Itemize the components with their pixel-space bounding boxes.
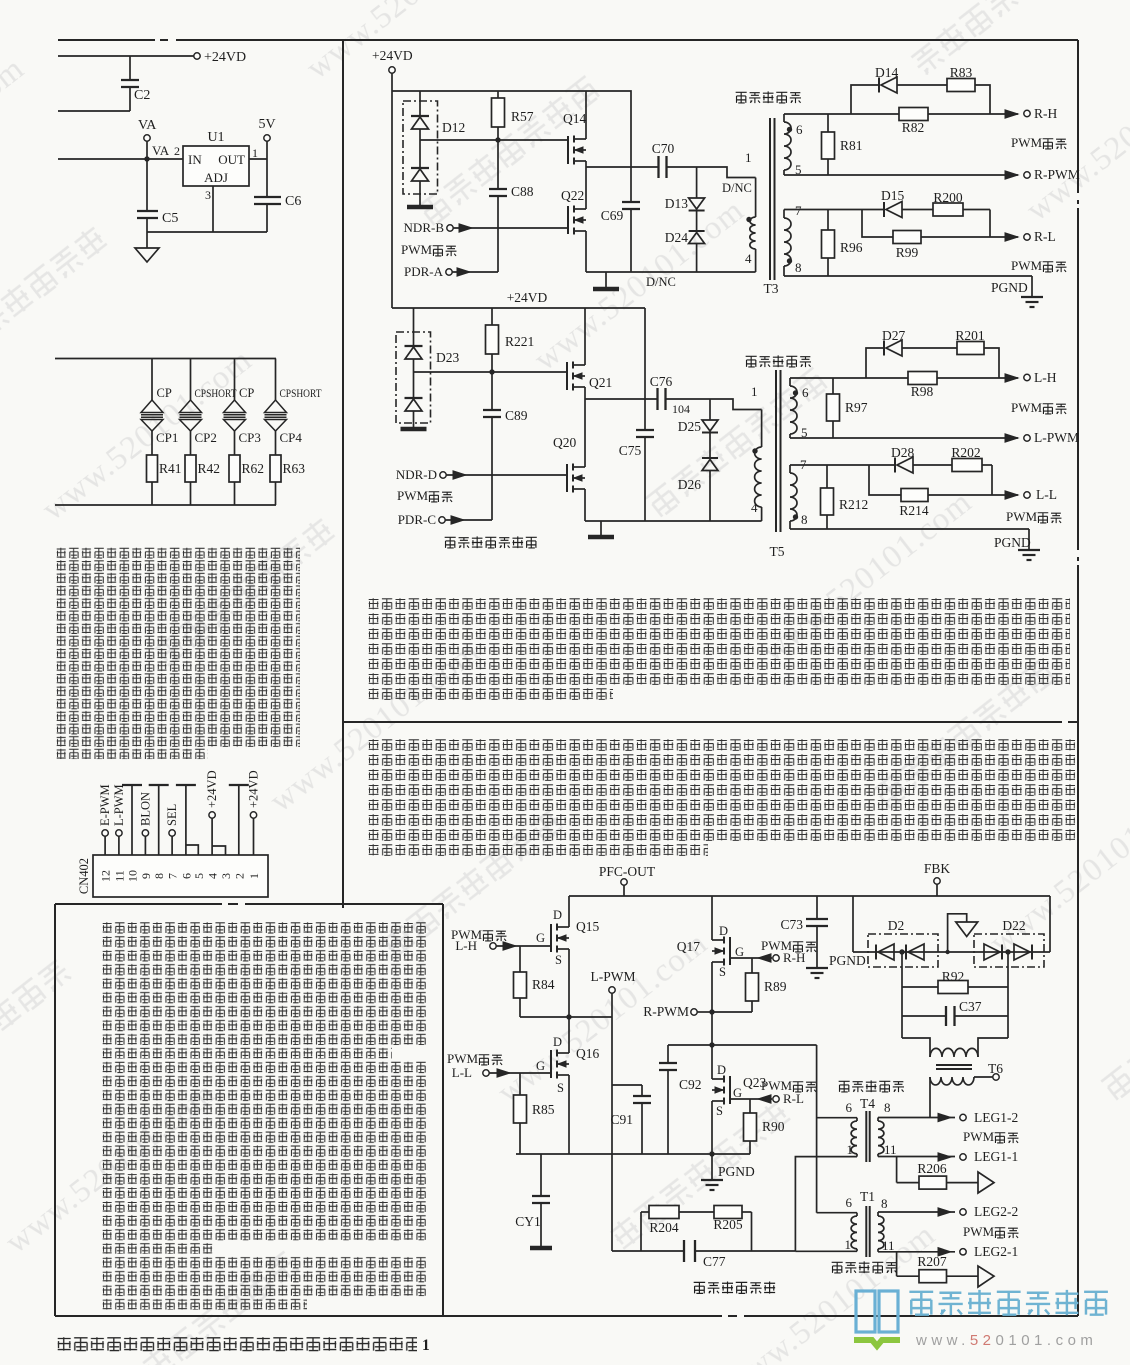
zener D26 <box>709 433 711 458</box>
svg-text:104: 104 <box>672 402 690 416</box>
svg-text:R212: R212 <box>839 497 868 512</box>
svg-text:R-L: R-L <box>1034 229 1056 244</box>
svg-text:R96: R96 <box>840 240 863 255</box>
svg-text:D12: D12 <box>442 120 465 135</box>
wire pin6 line L-H <box>790 377 908 379</box>
wire L-PWM vertical <box>611 993 613 1251</box>
arrow L-L <box>489 1072 551 1074</box>
resistor R82 <box>899 108 928 121</box>
svg-text:D: D <box>553 1035 562 1049</box>
wire Q20 drain <box>584 399 586 467</box>
wire Q23 source <box>711 1101 713 1154</box>
wire diode row <box>853 951 1050 953</box>
protector CP3 symbol <box>224 400 246 413</box>
svg-text:D22: D22 <box>1002 918 1025 933</box>
svg-text:C75: C75 <box>619 443 642 458</box>
node L-H out <box>1005 374 1018 382</box>
svg-text:R90: R90 <box>762 1119 785 1134</box>
label excitation transformer 1 <box>736 91 801 103</box>
ground circuit2 <box>600 521 602 536</box>
ground C73 <box>806 967 828 969</box>
resistor R221 <box>491 308 493 325</box>
caption title <box>57 1337 417 1352</box>
svg-text:L-PWM: L-PWM <box>112 784 126 826</box>
rectifier D2 box <box>868 934 938 967</box>
svg-text:5: 5 <box>192 873 206 879</box>
svg-text:PGND: PGND <box>829 953 866 968</box>
svg-text:LEG1-1: LEG1-1 <box>974 1149 1018 1164</box>
svg-text:T5: T5 <box>770 544 785 559</box>
wire bottom circuit2 <box>585 520 762 522</box>
wire Q17 source <box>711 962 713 1012</box>
svg-text:PDR-C: PDR-C <box>398 512 436 527</box>
protector CP1 symbol <box>141 400 163 413</box>
resistor R207 <box>919 1270 947 1283</box>
ground PGND top <box>1021 296 1043 298</box>
wire LEG1-2 line <box>878 1117 955 1119</box>
wire Q14 source to Q22 drain <box>585 161 587 209</box>
resistor R89 <box>751 958 753 973</box>
transformer T5 secondary B <box>789 465 791 473</box>
arrow PDR-C <box>445 519 492 521</box>
svg-text:D26: D26 <box>678 477 701 492</box>
node PGND bottom <box>709 1151 714 1156</box>
svg-text:VA: VA <box>152 143 170 158</box>
svg-text:Q14: Q14 <box>563 111 586 126</box>
svg-text:D13: D13 <box>665 196 688 211</box>
wire Q14 drain <box>585 91 587 139</box>
transformer T3 primary <box>755 178 757 218</box>
arrow NDR-D <box>446 474 567 476</box>
svg-text:6: 6 <box>846 1195 853 1210</box>
svg-text:R57: R57 <box>511 109 534 124</box>
resistor R206 <box>919 1176 947 1189</box>
svg-text:Q22: Q22 <box>561 188 584 203</box>
wire R92 line <box>901 952 903 1038</box>
wire LEG2-1 line <box>878 1251 955 1253</box>
svg-text:9: 9 <box>139 873 153 879</box>
svg-text:R89: R89 <box>764 979 787 994</box>
svg-text:LEG2-2: LEG2-2 <box>974 1204 1018 1219</box>
wire Q21 source junction <box>584 387 586 399</box>
svg-text:8: 8 <box>795 260 802 275</box>
wire tap D23 to Q21 gate <box>414 371 493 373</box>
divider under excitation text <box>343 721 1062 723</box>
svg-text:Q20: Q20 <box>553 435 576 450</box>
protector CP3 branch wire <box>234 359 236 401</box>
transformer T1 core <box>865 1206 867 1257</box>
protector CP2 branch wire <box>190 359 192 401</box>
svg-text:6: 6 <box>802 385 809 400</box>
capacitor C88 <box>497 140 499 189</box>
svg-text:PWM: PWM <box>1006 509 1038 524</box>
wire bottom rail <box>516 1153 750 1155</box>
wire T1 pin1 <box>795 1250 857 1252</box>
wire CP top rail <box>55 358 276 360</box>
wire R-PWM to T4/T1 pin6 <box>712 1044 817 1046</box>
ground bar D12 <box>407 205 433 210</box>
wire +24VD vertical left <box>391 73 393 308</box>
svg-text:D28: D28 <box>891 445 914 460</box>
svg-text:R205: R205 <box>713 1217 743 1232</box>
wire R214 branch <box>869 465 901 495</box>
svg-text:G: G <box>735 945 744 959</box>
svg-text:S: S <box>557 1081 564 1095</box>
wire D14 branch <box>851 85 879 114</box>
page border top <box>58 39 155 41</box>
dot T3 primary <box>746 217 751 222</box>
svg-text:R200: R200 <box>933 190 963 205</box>
svg-text:PWM: PWM <box>401 242 433 257</box>
svg-text:R-PWM: R-PWM <box>1034 167 1080 182</box>
column divider vertical <box>342 40 344 908</box>
pin 10 tbar <box>131 785 133 855</box>
svg-text:R42: R42 <box>198 461 221 476</box>
terminal +24VD <box>194 53 200 59</box>
label drive transformer 1 <box>839 1080 904 1092</box>
diode D15 <box>883 202 885 217</box>
svg-text:R98: R98 <box>911 384 934 399</box>
connector CN402 box <box>93 855 268 897</box>
svg-text:NDR-B: NDR-B <box>404 220 445 235</box>
wire Q15 drain <box>568 896 570 927</box>
svg-text:4: 4 <box>745 251 752 266</box>
svg-text:PFC-OUT: PFC-OUT <box>599 864 656 879</box>
wire Q17 drain <box>711 896 713 940</box>
svg-text:CP: CP <box>239 386 254 400</box>
protector CP1 branch wire <box>151 359 153 401</box>
svg-text:Q21: Q21 <box>589 375 612 390</box>
svg-text:C88: C88 <box>511 184 534 199</box>
svg-text:CY1: CY1 <box>515 1214 541 1229</box>
resistor R84 <box>519 946 521 972</box>
diode D22b <box>1031 945 1033 960</box>
svg-text:PWM: PWM <box>1011 258 1043 273</box>
svg-text:R-H: R-H <box>1034 106 1058 121</box>
svg-text:VA: VA <box>138 118 157 133</box>
buffer triangle 1 <box>978 1172 994 1193</box>
wire D27 branch <box>866 348 884 378</box>
svg-text:8: 8 <box>884 1100 891 1115</box>
svg-text:G: G <box>536 931 545 945</box>
dual diode D12 box <box>403 101 438 194</box>
svg-text:R206: R206 <box>917 1161 947 1176</box>
svg-text:L-L: L-L <box>452 1065 472 1080</box>
wire C70 to T3 pin1 <box>667 167 756 178</box>
svg-text:C73: C73 <box>780 917 803 932</box>
transformer T4 left winding <box>817 1117 857 1119</box>
capacitor C91 <box>612 1084 642 1086</box>
svg-text:R-L: R-L <box>783 1091 804 1106</box>
zener D25 <box>709 399 711 420</box>
svg-text:D27: D27 <box>882 328 905 343</box>
svg-text:CP2: CP2 <box>195 430 217 445</box>
transformer T3 core <box>769 118 771 280</box>
svg-text:www.520101.com: www.520101.com <box>0 50 31 236</box>
svg-text:BLON: BLON <box>138 792 152 826</box>
transistor Q17 <box>729 937 731 965</box>
page border bottom <box>55 1315 722 1317</box>
wire +24VD rail top-left <box>58 55 194 57</box>
protector CP4 branch wire <box>275 359 277 401</box>
wire pin7 line <box>784 209 884 211</box>
svg-text:L-H: L-H <box>1034 370 1057 385</box>
svg-text:1: 1 <box>422 1337 430 1354</box>
svg-text:C70: C70 <box>652 141 675 156</box>
capacitor C69 <box>630 167 632 202</box>
svg-text:T1: T1 <box>860 1189 875 1204</box>
svg-text:D/NC: D/NC <box>646 275 676 289</box>
wire D2 block left <box>852 896 854 952</box>
svg-text:R63: R63 <box>283 461 306 476</box>
capacitor C37 <box>902 1015 946 1017</box>
svg-text:1: 1 <box>252 146 258 160</box>
svg-text:CPSHORT: CPSHORT <box>195 388 237 400</box>
svg-text:C76: C76 <box>650 374 673 389</box>
svg-text:www.520101.com: www.520101.com <box>300 0 524 86</box>
wire pin5 line R-PWM <box>784 174 1018 176</box>
svg-text:R201: R201 <box>955 328 984 343</box>
wire R90 gate line <box>730 1098 772 1100</box>
transformer T6 core <box>936 1064 972 1066</box>
zener D13 <box>696 167 698 198</box>
svg-text:C6: C6 <box>285 194 301 209</box>
node gate Q21 <box>489 369 494 374</box>
svg-text:R221: R221 <box>505 334 534 349</box>
logo book ribbon <box>854 1340 900 1346</box>
resistor R205 <box>714 1206 742 1219</box>
wire Q16 drain <box>568 1017 570 1053</box>
transformer T1 right winding <box>877 1212 879 1216</box>
svg-text:E-PWM: E-PWM <box>98 784 112 826</box>
resistor R204 <box>649 1206 679 1219</box>
dual diode D23 box <box>396 332 431 423</box>
svg-text:+24VD: +24VD <box>372 48 413 63</box>
resistor R81 <box>827 114 829 132</box>
node R-H out <box>1005 110 1018 118</box>
wire Q15 source <box>568 949 570 1017</box>
buffer triangle 2 <box>978 1266 994 1287</box>
svg-text:R-PWM: R-PWM <box>643 1004 689 1019</box>
divider above protection text <box>55 903 222 905</box>
resistor R92 <box>938 981 968 994</box>
svg-text:C37: C37 <box>959 999 982 1014</box>
marker arrow center <box>948 914 967 952</box>
resistor R63 <box>270 455 281 482</box>
node R-PWM <box>709 1009 714 1014</box>
svg-text:T6: T6 <box>988 1061 1003 1076</box>
resistor R200 <box>933 203 963 216</box>
svg-text:PWM: PWM <box>963 1129 995 1144</box>
svg-text:LEG2-1: LEG2-1 <box>974 1244 1018 1259</box>
capacitor C89 <box>491 372 493 410</box>
svg-text:R204: R204 <box>649 1220 679 1235</box>
wire pin7 line <box>790 464 895 466</box>
wire +24VD rail circuit2 <box>392 307 645 309</box>
wire +24VD rail circuit1 <box>392 91 631 167</box>
svg-text:L-PWM: L-PWM <box>1034 430 1079 445</box>
transformer T4 core <box>865 1111 867 1162</box>
svg-text:PWM: PWM <box>1011 400 1043 415</box>
diode D14 <box>878 78 880 93</box>
svg-text:CP: CP <box>157 386 172 400</box>
pin 4 +24VD <box>211 818 213 855</box>
svg-text:1: 1 <box>751 384 758 399</box>
wire D12 tap to Q14 gate <box>420 139 498 141</box>
svg-text:7: 7 <box>795 203 802 218</box>
svg-text:D/NC: D/NC <box>722 181 752 195</box>
svg-text:1: 1 <box>247 873 261 879</box>
wire C92 tap <box>668 1044 710 1046</box>
svg-text:PGND: PGND <box>994 535 1031 550</box>
svg-text:Q16: Q16 <box>576 1046 599 1061</box>
svg-text:D23: D23 <box>436 350 459 365</box>
resistor R99 <box>893 231 921 244</box>
wire VA input <box>58 158 183 160</box>
svg-text:IN: IN <box>188 152 202 167</box>
svg-text:2: 2 <box>232 873 246 879</box>
svg-text:R97: R97 <box>845 400 868 415</box>
svg-text:ADJ: ADJ <box>204 170 228 185</box>
wire R206 branch <box>896 1157 898 1183</box>
capacitor C73 <box>816 896 818 919</box>
resistor R42 <box>185 455 196 482</box>
svg-text:R207: R207 <box>917 1254 947 1269</box>
svg-text:10: 10 <box>126 870 140 882</box>
pin 8 tbar <box>158 785 160 855</box>
page border right <box>1077 40 1079 193</box>
wire Q20 source down <box>584 489 586 521</box>
pin 1 +24VD <box>253 818 255 855</box>
svg-text:PDR-A: PDR-A <box>404 264 444 279</box>
protector CP4 symbol <box>265 400 287 413</box>
svg-text:+24VD: +24VD <box>205 770 219 808</box>
svg-text:S: S <box>555 953 562 967</box>
svg-text:C2: C2 <box>134 88 150 103</box>
transistor Q15 <box>550 924 552 952</box>
svg-text:D: D <box>553 908 562 922</box>
resistor R83 <box>947 79 975 92</box>
transformer T3 secondary B <box>783 210 785 219</box>
left border bottom section <box>54 904 56 1316</box>
wire pin8 line PGND <box>784 275 1032 277</box>
svg-text:D25: D25 <box>678 419 701 434</box>
transformer T4 right winding <box>877 1118 879 1122</box>
transformer T5 secondary A <box>789 378 791 386</box>
svg-text:R83: R83 <box>950 65 973 80</box>
diode D28 <box>894 458 896 473</box>
svg-text:Q15: Q15 <box>576 919 599 934</box>
wire pin8 line PGND2 <box>790 528 1029 530</box>
svg-text:L-H: L-H <box>455 938 477 953</box>
capacitor C75 <box>644 308 646 430</box>
svg-text:1: 1 <box>847 1142 854 1157</box>
svg-text:D: D <box>719 924 728 938</box>
svg-text:C91: C91 <box>610 1112 633 1127</box>
resistor R97 <box>832 378 834 394</box>
node VA <box>144 156 149 161</box>
svg-text:PWM: PWM <box>397 488 429 503</box>
transistor Q23 <box>729 1076 731 1104</box>
logo chinese text <box>909 1290 1107 1315</box>
diode D27 <box>883 341 885 356</box>
transistor Q21 <box>566 362 568 390</box>
ground circuit1 <box>605 272 607 288</box>
svg-text:G: G <box>536 1059 545 1073</box>
svg-text:CP1: CP1 <box>156 430 178 445</box>
wire pin6 line <box>784 113 899 115</box>
svg-text:12: 12 <box>99 870 113 882</box>
svg-text:R92: R92 <box>942 969 965 984</box>
svg-text:11: 11 <box>882 1238 895 1253</box>
resistor R90 <box>749 1099 751 1113</box>
resistor R57 <box>497 91 499 98</box>
resistor R96 <box>827 210 829 231</box>
svg-text:CPSHORT: CPSHORT <box>280 388 322 400</box>
svg-text:U1: U1 <box>207 130 224 145</box>
svg-text:C77: C77 <box>703 1254 726 1269</box>
svg-text:PWM: PWM <box>761 1078 793 1093</box>
svg-text:+24VD: +24VD <box>507 290 548 305</box>
wire bottom circuit1 <box>586 271 756 273</box>
svg-text:PGND: PGND <box>718 1164 755 1179</box>
wire C76 to T5 pin1 <box>666 399 762 410</box>
svg-text:R62: R62 <box>242 461 265 476</box>
wire R207 branch <box>896 1252 898 1276</box>
rectifier D22 box <box>974 934 1044 967</box>
svg-text:PWM: PWM <box>447 1051 479 1066</box>
capacitor C6 <box>266 159 268 197</box>
node L-L out <box>1005 491 1018 499</box>
dual diode D12 <box>419 91 421 116</box>
arrow L-H <box>496 945 551 947</box>
svg-text:PGND: PGND <box>991 280 1028 295</box>
transistor Q22 <box>567 206 569 234</box>
transformer T6 secondary <box>930 1077 974 1085</box>
svg-text:www.520101.com: www.520101.com <box>915 1332 1097 1349</box>
text block high voltage drive <box>368 739 1075 841</box>
transformer T3 secondary A <box>783 114 785 122</box>
transformer T1 left winding <box>817 1212 857 1214</box>
svg-text:R214: R214 <box>899 503 929 518</box>
svg-text:R99: R99 <box>896 245 919 260</box>
wire OUT to 5V node <box>249 158 267 160</box>
wire bottom U1 <box>147 231 267 233</box>
inner vertical border x=443 <box>442 904 444 1316</box>
node mid right <box>709 1042 714 1047</box>
pin 12 E-PWM <box>104 836 106 855</box>
wire Q23 drain <box>711 1012 713 1079</box>
text block excitation circuit <box>368 598 1070 685</box>
ground U1 <box>146 232 148 248</box>
svg-text:4: 4 <box>751 500 758 515</box>
resistor R212 <box>826 465 828 488</box>
dual diode D23 <box>413 308 415 346</box>
svg-text:+24VD: +24VD <box>204 50 246 65</box>
wire C2 bottom <box>58 110 130 112</box>
capacitor C77 <box>612 1250 684 1252</box>
svg-text:D: D <box>717 1063 726 1077</box>
svg-text:D2: D2 <box>888 918 905 933</box>
transformer T6 primary <box>902 1038 930 1057</box>
svg-text:CN402: CN402 <box>77 858 91 894</box>
transistor Q16 <box>550 1050 552 1078</box>
svg-text:CP4: CP4 <box>280 430 303 445</box>
regulator U1 <box>183 146 249 186</box>
wire R99 branch <box>862 210 893 238</box>
ground PGND bottom <box>711 1154 713 1179</box>
diode D2b <box>905 945 907 960</box>
